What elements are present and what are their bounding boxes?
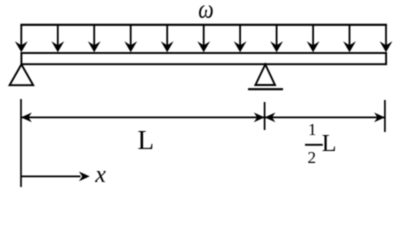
svg-text:L: L [322,131,337,157]
svg-text:L: L [138,125,155,155]
middle pin support [255,64,275,85]
distributed load top line [20,24,387,26]
left extension line [20,99,22,187]
load arrow 5 [161,25,174,52]
svg-text:ω: ω [198,0,213,24]
load arrow 6 [197,25,210,52]
load arrow 2 [51,25,64,52]
load arrow 7 [234,25,247,52]
load arrow 8 [270,25,283,52]
dimension line half L [265,113,385,123]
svg-text:2: 2 [308,148,317,167]
left pin support [10,64,34,85]
middle extension line [264,102,266,130]
load arrow 1 [15,25,28,52]
load arrow 11 [380,25,393,52]
ground line under middle support [248,88,283,90]
fraction bar [305,144,323,146]
beam [21,53,386,64]
svg-text:1: 1 [308,120,317,139]
load arrow 10 [343,25,356,52]
load arrow 4 [124,25,137,52]
dimension line L [21,113,265,123]
load arrow 9 [307,25,320,52]
x axis arrow [21,172,90,182]
svg-text:x: x [94,162,106,188]
load arrow 3 [88,25,101,52]
right extension line [384,100,386,132]
